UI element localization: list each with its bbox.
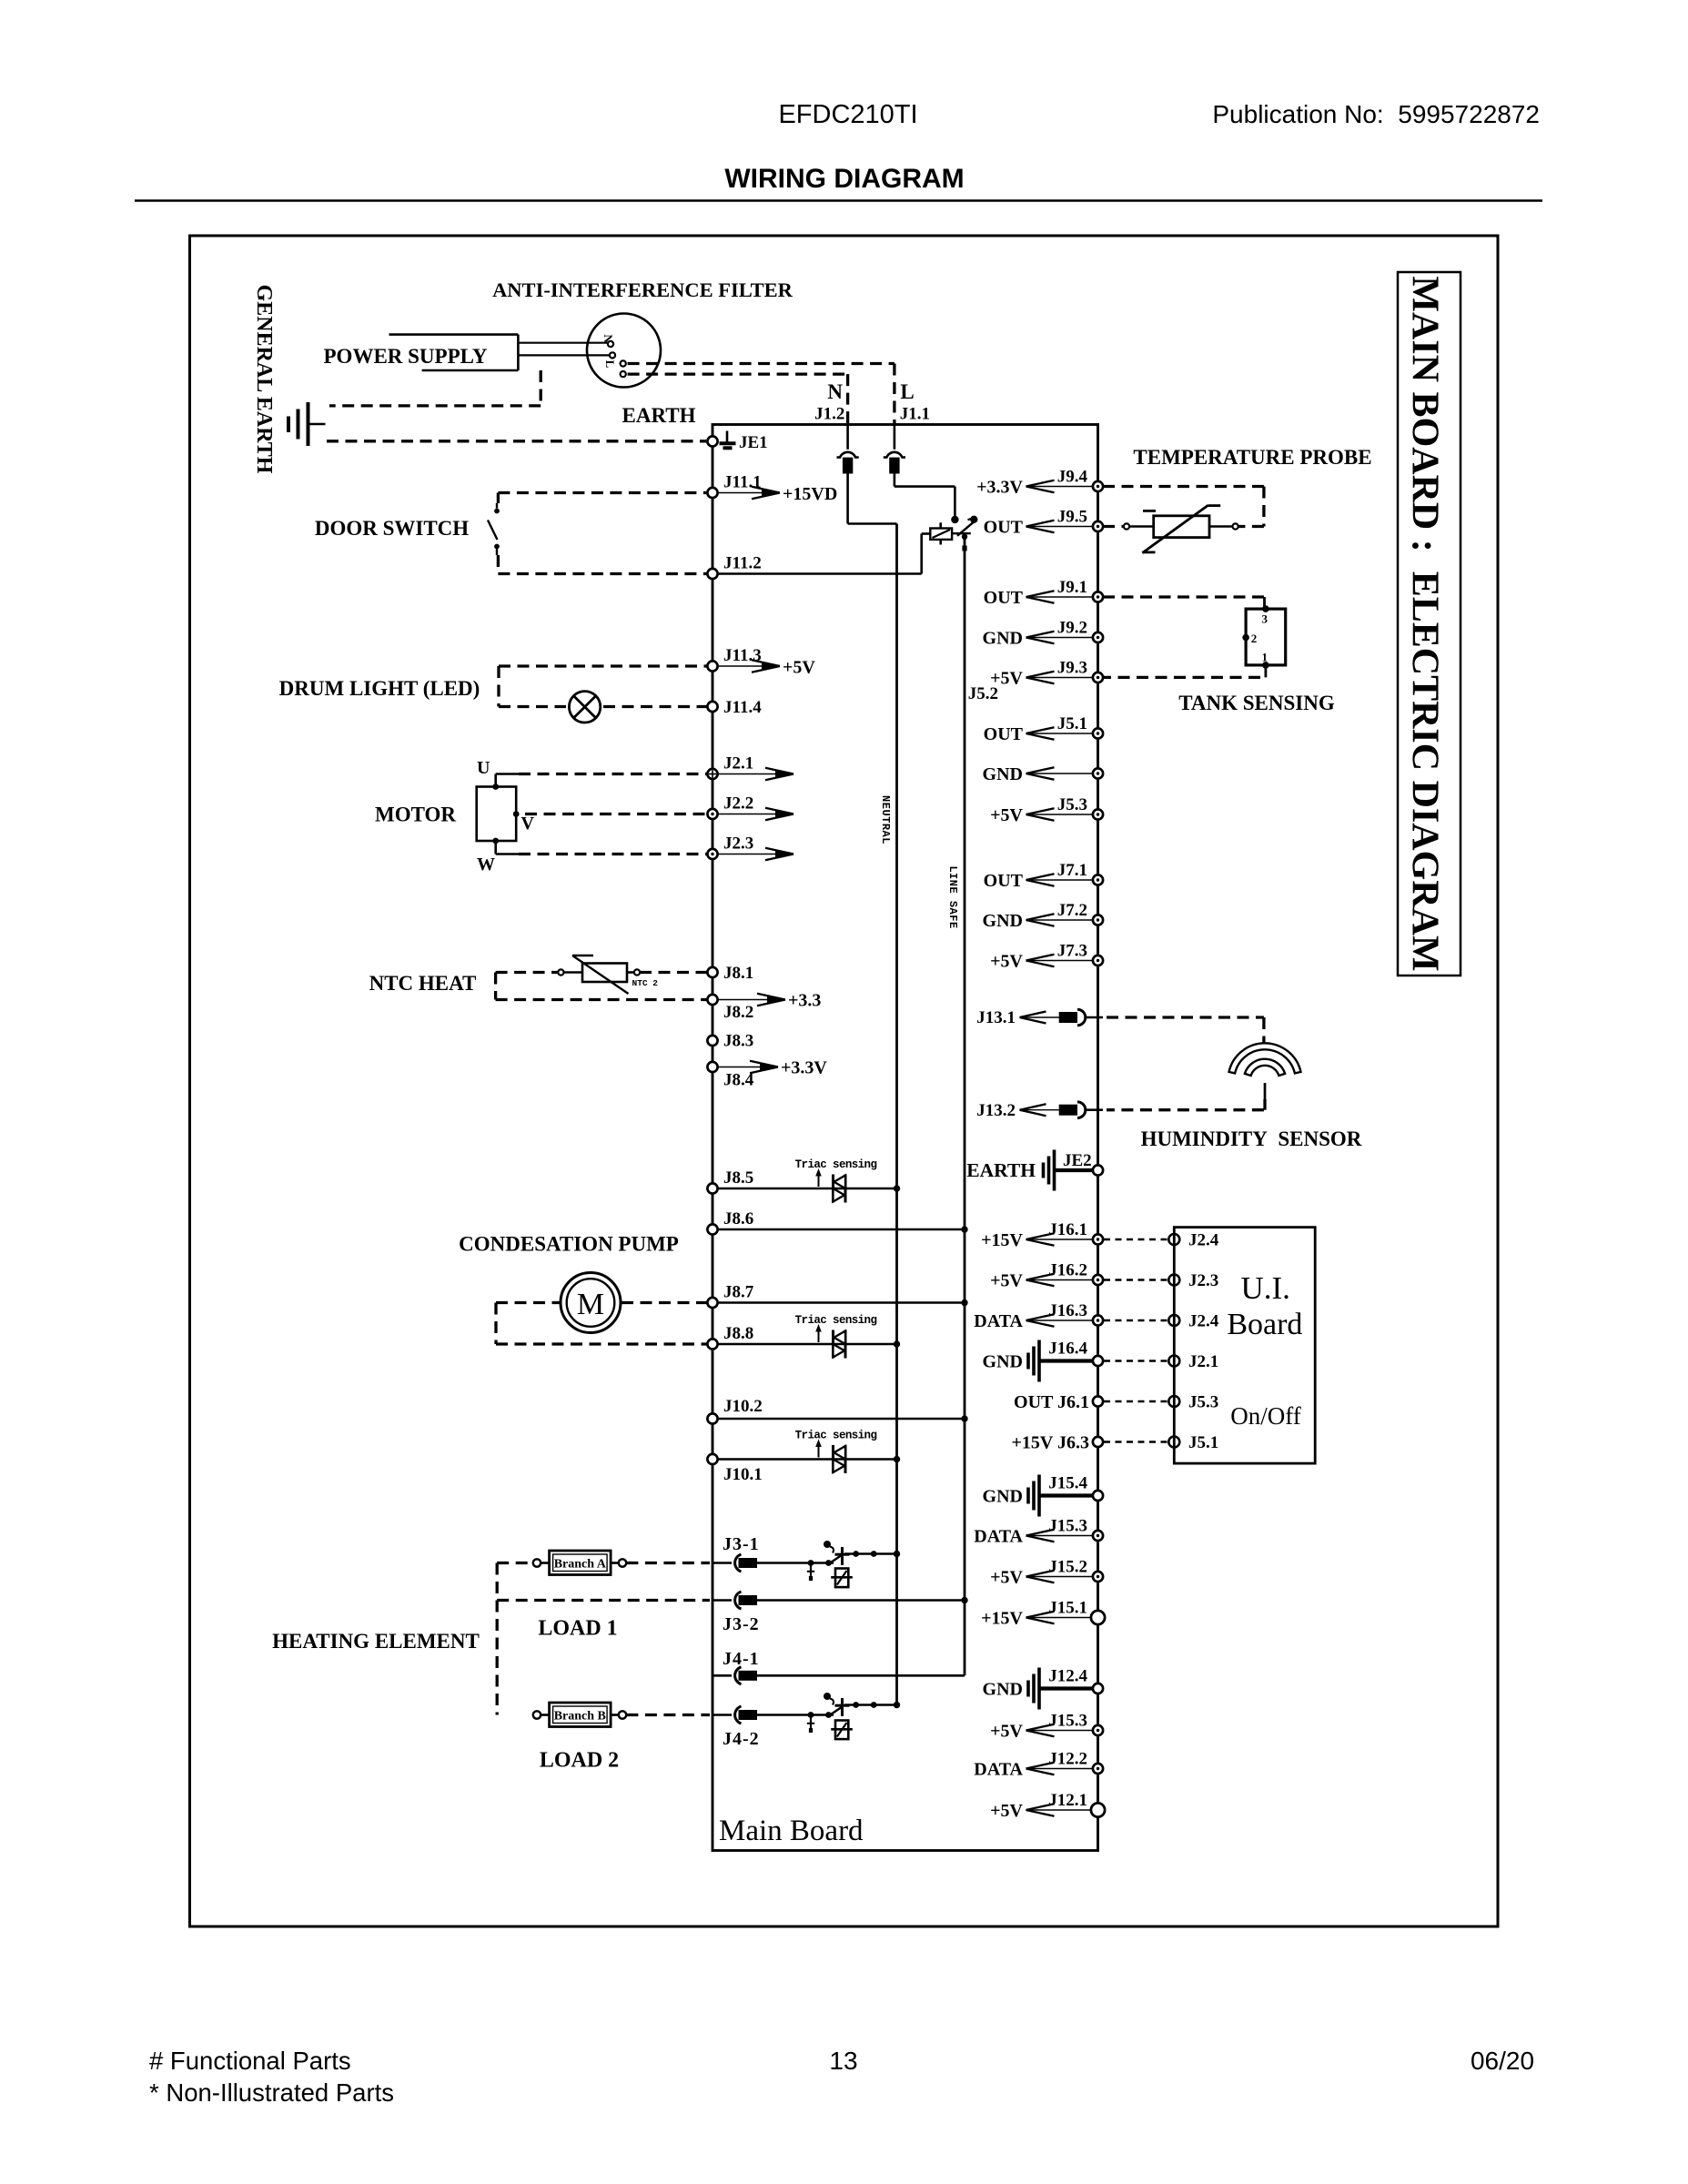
pin row GND	[1026, 773, 1094, 774]
title rule	[135, 199, 1542, 202]
dashed wire J9.4 to temperature probe	[1103, 485, 1264, 488]
svg-text:OUT: OUT	[984, 724, 1024, 744]
motor terminal W	[492, 838, 499, 844]
svg-text:OUT: OUT	[984, 518, 1024, 538]
pin row J15.4	[1040, 1493, 1093, 1497]
svg-text:J4-1: J4-1	[723, 1649, 760, 1669]
svg-text:J7.1: J7.1	[1057, 861, 1087, 880]
pin row J9.4	[1026, 486, 1094, 488]
dashed wire U to J2.1	[519, 773, 707, 775]
pin row J9.3	[1026, 677, 1094, 679]
svg-text:POWER SUPPLY: POWER SUPPLY	[324, 345, 488, 368]
svg-text:J8.2: J8.2	[723, 1003, 753, 1022]
node J8.1	[707, 967, 717, 977]
svg-text:GND: GND	[983, 1680, 1023, 1700]
drum light lamp symbol	[569, 692, 600, 723]
svg-text:+5V: +5V	[990, 952, 1023, 972]
svg-text:J8.1: J8.1	[723, 964, 753, 983]
svg-text:* Non-Illustrated Parts: * Non-Illustrated Parts	[149, 2078, 394, 2107]
svg-text:J7.2: J7.2	[1057, 901, 1087, 920]
svg-text:J1.1: J1.1	[900, 405, 930, 424]
outer frame	[190, 236, 1499, 1926]
svg-text:LINE SAFE: LINE SAFE	[946, 865, 959, 928]
svg-text:On/Off: On/Off	[1230, 1402, 1301, 1430]
svg-text:J11.2: J11.2	[723, 554, 762, 573]
node J2.1	[707, 769, 717, 779]
dashed wire filter to J1.2 (N)	[628, 372, 848, 375]
svg-text:+5V: +5V	[990, 1722, 1023, 1742]
svg-text:# Functional Parts: # Functional Parts	[149, 2047, 351, 2075]
svg-text:N: N	[827, 380, 843, 403]
svg-text:MOTOR: MOTOR	[375, 804, 456, 826]
node J10.2	[707, 1413, 717, 1423]
svg-text:+15V: +15V	[981, 1609, 1023, 1629]
node J8.4	[707, 1062, 717, 1072]
NTC heat thermistor	[634, 969, 640, 975]
svg-text:J9.5: J9.5	[1057, 508, 1087, 527]
node J8.3	[707, 1036, 717, 1046]
line-safe relay (door interlock)	[951, 516, 958, 523]
svg-text:+5V: +5V	[783, 658, 815, 678]
svg-text:J5.3: J5.3	[1188, 1393, 1218, 1412]
pin row J15.3	[1026, 1535, 1094, 1537]
svg-text:2: 2	[1251, 632, 1258, 645]
svg-text:J3-2: J3-2	[723, 1614, 760, 1634]
pin row J7.1	[1026, 879, 1094, 881]
svg-text:W: W	[477, 854, 495, 875]
svg-text:J8.4: J8.4	[723, 1071, 754, 1090]
dashed earth wire from power supply	[540, 370, 542, 406]
node J10.1	[707, 1454, 717, 1464]
svg-text:JE1: JE1	[739, 433, 768, 452]
svg-text:+5V: +5V	[990, 805, 1023, 825]
svg-text:J9.1: J9.1	[1057, 578, 1087, 597]
svg-text:L: L	[603, 360, 617, 369]
dashed heating element common	[497, 1562, 532, 1564]
temperature probe thermistor	[1103, 525, 1123, 528]
anti-interference filter circle	[587, 314, 661, 388]
svg-text:Branch A: Branch A	[554, 1558, 607, 1572]
svg-text:TEMPERATURE PROBE: TEMPERATURE PROBE	[1133, 446, 1371, 469]
svg-text:EARTH: EARTH	[622, 404, 696, 427]
node JE2 earth	[1056, 1168, 1093, 1172]
svg-text:U.I.: U.I.	[1240, 1270, 1289, 1306]
svg-text:J2.3: J2.3	[723, 834, 753, 854]
Branch A box	[550, 1551, 612, 1575]
svg-text:J5.2: J5.2	[968, 684, 998, 703]
U.I. board outline	[1174, 1228, 1315, 1464]
svg-text:J2.4: J2.4	[1188, 1231, 1219, 1250]
dashed wire pump loop to J8.8	[496, 1301, 560, 1304]
svg-text:J9.4: J9.4	[1057, 468, 1088, 487]
svg-text:J10.1: J10.1	[723, 1465, 763, 1484]
dashed wire J9.1 to tank sensing pin 3	[1103, 595, 1265, 598]
arrow at J2.3	[718, 854, 793, 855]
svg-text:J8.5: J8.5	[723, 1168, 753, 1188]
wires power supply to filter	[518, 342, 607, 344]
node J8.5	[707, 1183, 717, 1193]
filter output terminals	[621, 360, 626, 366]
svg-text:EFDC210TI: EFDC210TI	[778, 100, 917, 129]
wire J8.7 to line safe	[718, 1301, 965, 1304]
relay for J4 heater branch	[757, 1714, 834, 1716]
svg-text:J15.2: J15.2	[1048, 1558, 1087, 1577]
svg-text:Triac sensing: Triac sensing	[795, 1314, 877, 1327]
dashed earth wire to JE1	[327, 440, 706, 442]
svg-text:J5.3: J5.3	[1057, 795, 1087, 814]
wire J10.1 with triac sensing	[718, 1458, 897, 1461]
general earth symbol	[307, 402, 310, 446]
svg-text:J12.1: J12.1	[1048, 1791, 1087, 1810]
node JE1 earth	[707, 436, 717, 446]
dashed wire W to J2.3	[519, 853, 707, 855]
svg-text:J9.2: J9.2	[1057, 619, 1087, 638]
svg-text:J13.1: J13.1	[976, 1008, 1016, 1027]
pin row J16.4 to UI board J2.1	[1040, 1359, 1093, 1362]
svg-text:J15.3: J15.3	[1048, 1517, 1087, 1536]
svg-text:Board: Board	[1227, 1308, 1302, 1341]
pin row J16.1 to UI board J2.4	[1026, 1239, 1094, 1240]
line safe bus wire (vertical)	[964, 537, 966, 1675]
svg-text:13: 13	[829, 2047, 857, 2075]
main board outline	[713, 425, 1098, 1851]
pin row J15.2	[1026, 1576, 1094, 1578]
arrow at J2.2	[718, 814, 793, 815]
svg-text:J1.2: J1.2	[814, 405, 844, 424]
svg-text:CONDESATION PUMP: CONDESATION PUMP	[459, 1233, 679, 1256]
connector J4-2	[713, 1714, 732, 1716]
dashed wire NTC loop to J8.2	[496, 971, 558, 974]
svg-text:J5.1: J5.1	[1057, 714, 1087, 733]
side title box MAIN BOARD : ELECTRIC DIAGRAM	[1398, 272, 1461, 976]
svg-text:+15VD: +15VD	[783, 484, 837, 504]
svg-text:MAIN BOARD : ELECTRIC DIAGRAM: MAIN BOARD : ELECTRIC DIAGRAM	[1404, 276, 1446, 971]
humidity sensor symbol	[1229, 1043, 1301, 1073]
arrow +5V at J11.3	[718, 665, 780, 667]
arrow +3.3 at J8.2	[718, 999, 785, 1001]
wire J3-2 to line safe	[757, 1599, 965, 1602]
svg-text:JE2: JE2	[1063, 1151, 1092, 1170]
svg-text:Publication No: 5995722872: Publication No: 5995722872	[1212, 100, 1540, 128]
svg-text:3: 3	[1262, 612, 1269, 626]
relay for J3 heater branch	[757, 1562, 834, 1564]
svg-text:J8.6: J8.6	[723, 1209, 753, 1228]
svg-text:M: M	[577, 1288, 604, 1321]
svg-text:HEATING ELEMENT: HEATING ELEMENT	[272, 1630, 480, 1653]
wire J8.5 with triac sensing	[718, 1188, 897, 1190]
wire J4-1 to line safe	[757, 1674, 965, 1677]
svg-text:NTC 2: NTC 2	[632, 978, 659, 988]
node J11.2	[707, 569, 717, 579]
motor terminal V	[513, 811, 520, 817]
svg-text:Triac sensing: Triac sensing	[795, 1158, 877, 1171]
pin row J7.3	[1026, 960, 1094, 962]
svg-text:GENERAL EARTH: GENERAL EARTH	[252, 285, 276, 474]
svg-text:J4-2: J4-2	[723, 1729, 760, 1749]
fuse at J1.1 (L)	[894, 425, 896, 450]
svg-text:J16.1: J16.1	[1048, 1220, 1087, 1239]
pin row J5.1	[1026, 733, 1094, 734]
svg-text:J15.1: J15.1	[1048, 1599, 1087, 1618]
dashed wire drum light to J11.4	[603, 705, 707, 708]
dashed wire J8.1 to NTC	[640, 971, 707, 974]
svg-text:+3.3V: +3.3V	[781, 1058, 827, 1078]
dashed wire Branch B to J4-2	[626, 1714, 710, 1716]
svg-text:L: L	[900, 380, 914, 403]
svg-text:DRUM LIGHT (LED): DRUM LIGHT (LED)	[279, 677, 480, 700]
node J2.3	[707, 849, 717, 859]
svg-text:J15.4: J15.4	[1048, 1474, 1087, 1493]
pin row J15.3	[1026, 1730, 1094, 1732]
svg-text:GND: GND	[983, 1352, 1023, 1372]
svg-text:GND: GND	[983, 764, 1023, 784]
svg-text:J2.1: J2.1	[1188, 1352, 1218, 1371]
filter terminal N (input)	[608, 341, 613, 347]
svg-text:U: U	[477, 758, 490, 778]
dashed wire pump to J8.7	[622, 1301, 707, 1304]
svg-text:DOOR SWITCH: DOOR SWITCH	[315, 517, 469, 540]
door switch	[496, 503, 498, 509]
svg-text:GND: GND	[983, 911, 1023, 931]
svg-text:J2.4: J2.4	[1188, 1312, 1219, 1331]
svg-text:+3.3V: +3.3V	[976, 478, 1023, 498]
dashed wire J11.3 to drum light	[499, 664, 707, 667]
svg-text:NTC HEAT: NTC HEAT	[369, 972, 477, 995]
svg-text:J2.2: J2.2	[723, 794, 753, 814]
motor terminal U	[492, 784, 499, 790]
dashed wire Branch A to J3-1	[626, 1562, 710, 1564]
dashed wire filter to J1.1 (L)	[628, 362, 895, 365]
svg-text:NEUTRAL: NEUTRAL	[879, 795, 892, 844]
svg-text:EARTH: EARTH	[966, 1159, 1036, 1181]
pin row J16.2 to UI board J2.3	[1026, 1279, 1094, 1281]
svg-text:N: N	[601, 334, 615, 343]
UI board node J5.3	[1168, 1396, 1179, 1407]
svg-text:J11.3: J11.3	[723, 646, 762, 665]
svg-text:OUT: OUT	[984, 871, 1024, 891]
node J8.7	[707, 1298, 717, 1308]
fuse at J1.2 (N)	[846, 425, 849, 450]
svg-text:LOAD 2: LOAD 2	[540, 1749, 619, 1773]
pin row J9.2	[1026, 637, 1094, 639]
wire J8.6 to line safe	[718, 1228, 965, 1231]
svg-text:OUT: OUT	[984, 588, 1024, 608]
power supply box	[389, 333, 519, 336]
svg-text:DATA: DATA	[974, 1311, 1023, 1331]
svg-text:+15V J6.3: +15V J6.3	[1012, 1433, 1089, 1453]
pin row J15.1	[1026, 1617, 1094, 1619]
UI board node J2.3	[1168, 1275, 1179, 1286]
arrow +15VD at J11.1	[718, 492, 780, 494]
svg-text:J11.1: J11.1	[723, 473, 762, 492]
pin row J12.4	[1040, 1686, 1093, 1690]
svg-text:V: V	[521, 814, 535, 834]
pin row J5.3	[1026, 814, 1094, 815]
UI board node J2.1	[1168, 1356, 1179, 1367]
svg-text:J11.4: J11.4	[723, 698, 762, 717]
svg-text:+3.3: +3.3	[788, 991, 821, 1011]
svg-text:+5V: +5V	[990, 1271, 1023, 1291]
svg-text:06/20: 06/20	[1471, 2047, 1534, 2075]
svg-text:J15.3: J15.3	[1048, 1712, 1087, 1731]
dashed wire humidity sensor to J13.2	[1107, 1108, 1264, 1111]
pin row J12.1	[1026, 1809, 1094, 1811]
arrow at J2.1	[718, 773, 793, 775]
svg-text:1: 1	[1262, 651, 1269, 664]
svg-text:J12.4: J12.4	[1048, 1667, 1087, 1686]
svg-text:+5V: +5V	[990, 1801, 1023, 1821]
svg-text:DATA: DATA	[974, 1527, 1023, 1547]
connector J4-1	[713, 1674, 732, 1677]
node J11.3	[707, 661, 717, 671]
svg-text:J3-1: J3-1	[723, 1534, 760, 1554]
node J11.4	[707, 702, 717, 712]
UI board node J5.1	[1168, 1437, 1179, 1448]
svg-text:HUMINDITY SENSOR: HUMINDITY SENSOR	[1141, 1127, 1362, 1150]
svg-text:WIRING DIAGRAM: WIRING DIAGRAM	[724, 164, 964, 194]
Branch B box	[550, 1703, 612, 1727]
connector J3-2	[713, 1599, 732, 1602]
dashed wire tank sensing pin 1 to J9.3	[1265, 665, 1268, 678]
svg-text:+5V: +5V	[990, 1568, 1023, 1588]
svg-text:GND: GND	[983, 629, 1023, 649]
wire J8.8 with triac sensing	[718, 1343, 897, 1346]
dashed wire door switch to J11.2	[498, 572, 707, 575]
svg-text:ANTI-INTERFERENCE FILTER: ANTI-INTERFERENCE FILTER	[492, 278, 793, 301]
svg-text:OUT J6.1: OUT J6.1	[1014, 1392, 1089, 1412]
svg-text:LOAD 1: LOAD 1	[538, 1617, 617, 1641]
dashed wire V to J2.2	[525, 813, 707, 815]
svg-text:J16.3: J16.3	[1048, 1301, 1087, 1320]
svg-text:J8.7: J8.7	[723, 1283, 754, 1302]
node J11.1	[707, 488, 717, 498]
pin row J12.2	[1026, 1768, 1094, 1770]
svg-text:J12.2: J12.2	[1048, 1750, 1087, 1769]
tank sensing connector	[1246, 609, 1286, 665]
dashed wire J13.1 to humidity sensor	[1086, 1016, 1104, 1019]
svg-text:J8.8: J8.8	[723, 1324, 753, 1343]
svg-text:J9.3: J9.3	[1057, 659, 1087, 678]
svg-text:J7.3: J7.3	[1057, 942, 1087, 961]
svg-text:J10.2: J10.2	[723, 1397, 763, 1416]
UI board node J2.4	[1168, 1315, 1179, 1326]
condensation pump motor M	[561, 1273, 621, 1333]
svg-text:J2.1: J2.1	[723, 754, 753, 773]
svg-text:J16.4: J16.4	[1048, 1340, 1087, 1359]
connector J3-1	[713, 1562, 732, 1564]
node J8.6	[707, 1224, 717, 1234]
svg-text:J16.2: J16.2	[1048, 1261, 1087, 1280]
svg-text:Branch B: Branch B	[554, 1710, 606, 1724]
pin row J7.2	[1026, 919, 1094, 921]
motor box	[477, 787, 517, 842]
svg-text:+15V: +15V	[981, 1230, 1023, 1250]
UI board node J2.4	[1168, 1234, 1179, 1245]
svg-text:J2.3: J2.3	[1188, 1271, 1218, 1290]
svg-text:Main Board: Main Board	[719, 1815, 864, 1847]
svg-text:J8.3: J8.3	[723, 1032, 753, 1051]
svg-text:DATA: DATA	[974, 1760, 1023, 1780]
pin row J9.5	[1026, 526, 1094, 528]
filter terminal L (input)	[610, 352, 615, 358]
node J8.8	[707, 1339, 717, 1349]
arrow +3.3V at J8.4	[718, 1067, 778, 1068]
node J2.2	[707, 809, 717, 819]
svg-text:TANK SENSING: TANK SENSING	[1178, 692, 1335, 714]
dashed wire J11.1 to door switch	[498, 491, 707, 494]
pin row J16.3 to UI board J2.4	[1026, 1319, 1094, 1321]
svg-text:J5.1: J5.1	[1188, 1433, 1218, 1452]
node J8.2	[707, 995, 717, 1005]
wire J11.2 to relay coil	[718, 572, 922, 575]
svg-text:Triac sensing: Triac sensing	[795, 1430, 877, 1442]
neutral bus wire (vertical)	[895, 524, 898, 1705]
svg-text:GND: GND	[983, 1487, 1023, 1507]
svg-text:J13.2: J13.2	[976, 1101, 1016, 1120]
wire J10.2 to line safe	[718, 1418, 965, 1421]
pin row J9.1	[1026, 596, 1094, 598]
